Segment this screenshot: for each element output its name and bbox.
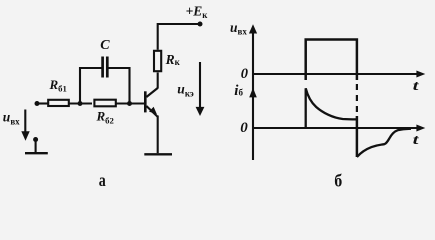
ground (emitter): [144, 153, 172, 155]
wire: emitter to ground: [157, 116, 159, 154]
waveform: uвх rectangular pulse: [306, 40, 357, 81]
voltage arrow uкэ: [199, 62, 201, 109]
wire: capacitor branch right riser: [108, 68, 129, 104]
transistor VT: collector diagonal: [146, 88, 157, 97]
resistor Rк: [154, 51, 161, 71]
waveform: iб turn-on spike and decay: [306, 88, 357, 128]
wire: Rк to supply: [158, 24, 200, 50]
capacitor C plates: [101, 57, 104, 78]
axis: uвх time axis: [253, 73, 418, 75]
transistor VT (NPN): base bar: [144, 91, 147, 112]
wire: capacitor branch left riser: [80, 68, 102, 104]
node A (junction dot): [78, 101, 83, 106]
axis arrow: iб vertical: [249, 88, 257, 98]
terminal: input bottom node: [33, 137, 38, 142]
wire: Rб2 to node B and to base: [117, 102, 146, 104]
terminal: +Eк supply dot: [198, 22, 203, 27]
transistor VT: emitter arrowhead: [149, 107, 157, 115]
waveform: iб negative drop: [356, 116, 359, 157]
wire: collector to Rк: [157, 73, 159, 89]
node B (junction dot): [127, 101, 132, 106]
wire: input to Rб1: [37, 102, 48, 104]
transistor VT: emitter diagonal: [146, 106, 158, 117]
svg-text:б: б: [334, 171, 342, 188]
voltage arrow uвх: [24, 110, 26, 136]
dashed line at pulse end: [356, 84, 358, 113]
svg-text:0: 0: [241, 66, 248, 82]
axis: vertical shared axis of graphs: [252, 28, 254, 160]
waveform: iб recovery curve: [357, 129, 411, 157]
svg-text:C: C: [100, 38, 110, 53]
wire: Rб1 to node A: [69, 102, 92, 104]
svg-text:а: а: [99, 170, 106, 188]
axis: iб time axis: [253, 127, 418, 129]
resistor Rб2: [94, 100, 115, 107]
resistor Rб1: [48, 100, 69, 106]
svg-text:0: 0: [240, 120, 248, 136]
wire: bottom terminal stub: [35, 140, 37, 153]
ground (input): [25, 152, 48, 154]
terminal: input top node: [35, 101, 40, 106]
